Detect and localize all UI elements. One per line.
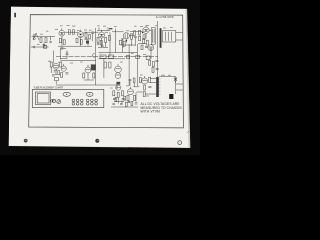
- resistor R33: [152, 67, 154, 72]
- black mat left band: [0, 0, 11, 155]
- B+ label: [109, 28, 112, 29]
- capacitor C19: [128, 101, 131, 102]
- wire: [99, 53, 138, 59]
- capacitor C20: [52, 75, 55, 76]
- black mat bottom band: [0, 146, 200, 155]
- capacitor C1: [43, 45, 46, 46]
- capacitor C16: [121, 39, 124, 40]
- resistor R44: [119, 40, 121, 45]
- capacitor C6: [134, 36, 137, 37]
- wire: [156, 21, 158, 77]
- resistor R26: [104, 62, 106, 68]
- capacitor C14: [113, 99, 125, 100]
- resistor R3: [59, 38, 61, 43]
- wire: [61, 50, 68, 58]
- capacitor C11: [116, 82, 120, 85]
- resistor R6: [72, 30, 74, 34]
- tube V2: [78, 30, 84, 38]
- coil L2: [49, 36, 51, 42]
- wire: [122, 39, 124, 53]
- wire: [129, 44, 151, 86]
- resistor R41: [144, 85, 146, 90]
- punch hole left: [24, 139, 28, 143]
- resistor R10: [89, 35, 91, 39]
- resistor R23: [61, 73, 63, 78]
- socket B2: [57, 100, 61, 104]
- resistor R40: [149, 77, 151, 82]
- capacitor C7: [145, 46, 148, 47]
- black mat top band: [0, 0, 200, 9]
- resistor R1: [40, 38, 42, 43]
- resistor R9: [85, 33, 87, 37]
- wire: [51, 67, 56, 84]
- tube V9: [116, 85, 121, 90]
- resistor R45: [123, 42, 125, 47]
- voltage note text: [141, 102, 183, 114]
- capacitor C8: [54, 71, 57, 72]
- resistor R18: [143, 39, 145, 44]
- wire: [138, 30, 151, 43]
- tube V6: [61, 64, 66, 71]
- ground bus wire: [111, 106, 138, 108]
- resistor R27: [109, 62, 111, 68]
- resistor R15: [134, 31, 136, 35]
- tube V5: [53, 63, 59, 69]
- capacitor C22: [112, 103, 115, 104]
- signal chain wire: [65, 30, 143, 33]
- tube placement chart box: [32, 89, 104, 107]
- electrolytic C3: [86, 41, 89, 44]
- capacitor C9: [65, 73, 68, 74]
- resistor R21: [50, 62, 52, 67]
- wire: [52, 51, 54, 64]
- vertical wire: [110, 29, 116, 56]
- oscillator box: [55, 77, 59, 80]
- scanned page background: [9, 0, 191, 149]
- tube V7: [85, 65, 91, 73]
- wire: [32, 35, 56, 37]
- wire: [159, 76, 176, 78]
- resistor R30: [146, 56, 150, 60]
- page number mark top-left: [14, 13, 16, 18]
- resistor R38: [133, 95, 135, 100]
- capacitor C21: [66, 53, 69, 54]
- output transformer T4: [156, 77, 160, 97]
- wire: [176, 84, 183, 90]
- scattered value labels: [37, 25, 173, 96]
- svg-text:A-1736 RVF: A-1736 RVF: [156, 15, 174, 19]
- tube V10: [127, 87, 133, 95]
- tube V3: [99, 30, 105, 38]
- wire: [84, 73, 94, 80]
- svg-text:TUBE PLACEMENT CHART: TUBE PLACEMENT CHART: [33, 86, 63, 90]
- resistor R16: [139, 30, 141, 35]
- long vertical wire: [95, 28, 97, 85]
- resistor R42: [143, 92, 145, 97]
- wire: [130, 81, 134, 86]
- resistor R48: [58, 71, 60, 75]
- socket group 2: [86, 99, 97, 105]
- capacitor C12: [155, 60, 158, 61]
- capacitor C18: [97, 44, 100, 45]
- resistor R31: [149, 60, 151, 65]
- tube V13: [148, 45, 154, 51]
- resistor R22: [60, 62, 62, 67]
- antenna input: [33, 33, 39, 40]
- wire: [81, 38, 88, 47]
- wire: [61, 60, 97, 62]
- grid cap dot V1: [61, 33, 62, 34]
- punch hole middle: [95, 139, 99, 143]
- socket group 1: [72, 99, 83, 105]
- punch hole right: [178, 141, 182, 145]
- resistor R29: [136, 55, 140, 58]
- resistor R2: [45, 38, 47, 43]
- discriminator transformer T3: [163, 31, 176, 42]
- resistor R25: [93, 73, 95, 78]
- resistor R35: [117, 92, 119, 97]
- resistor R32: [152, 62, 154, 67]
- wire: [114, 97, 124, 103]
- resistor R53: [133, 78, 135, 82]
- capacitor C5: [60, 48, 63, 49]
- tube V4: [143, 25, 149, 33]
- heater bus wire: [56, 56, 158, 58]
- resistor R47: [124, 96, 126, 100]
- IF amplifier tube V12: [123, 33, 129, 43]
- resistor R17: [143, 35, 145, 40]
- black mat right band: [187, 0, 200, 155]
- resistor R28: [126, 55, 129, 58]
- grid cap dot V3: [101, 34, 102, 35]
- CRT outline: [36, 92, 53, 105]
- resistor R39: [139, 78, 141, 83]
- sound take-off coil L1: [160, 28, 162, 48]
- capacitor C13: [156, 69, 159, 70]
- wire: [176, 32, 183, 40]
- svg-text:WITH VTVM: WITH VTVM: [141, 110, 161, 114]
- page edge shadow right: [186, 0, 191, 149]
- resistor R7: [76, 38, 78, 43]
- wire: [103, 58, 105, 78]
- wire: [122, 92, 136, 103]
- resistor R46: [115, 98, 117, 102]
- resistor R49: [139, 36, 141, 41]
- phono jack J1: [174, 78, 177, 83]
- capacitor C4: [91, 32, 94, 41]
- capacitor C25: [129, 79, 132, 80]
- resistor R14: [131, 34, 133, 39]
- resistor R37: [127, 95, 129, 100]
- resistor R4: [63, 40, 65, 45]
- capacitor C24: [135, 103, 138, 104]
- capacitor C17: [101, 45, 104, 46]
- wire: [61, 36, 63, 46]
- junction mark: [93, 53, 95, 57]
- audio bus wire: [56, 85, 117, 89]
- wire: [97, 27, 110, 47]
- socket E2: [86, 92, 93, 96]
- capacitor C23: [120, 104, 123, 105]
- resistor R8: [80, 40, 82, 45]
- AGC wire with arrows: [31, 45, 49, 48]
- grid cap dot V4: [142, 32, 143, 33]
- tube V11: [142, 76, 148, 84]
- resistor R20: [141, 45, 143, 50]
- capacitor C15: [148, 86, 151, 87]
- wire: [121, 36, 135, 48]
- schematic border frame: [29, 15, 184, 128]
- wire: [60, 49, 66, 60]
- stray mark bottom right: [187, 131, 189, 133]
- resistor R13: [108, 35, 110, 40]
- resistor R5: [68, 30, 70, 34]
- junction dot: [55, 74, 56, 75]
- socket B1: [52, 99, 55, 102]
- wire: [174, 77, 176, 94]
- speaker SP1 magnet: [169, 94, 173, 99]
- wire: [43, 43, 45, 48]
- electrolytic C10: [91, 64, 96, 70]
- IF can T2: [151, 28, 155, 44]
- resistor R24: [83, 73, 85, 78]
- resistor R12: [105, 37, 107, 42]
- resistor R52: [131, 101, 133, 105]
- resistor R51: [125, 102, 127, 106]
- resistor R36: [122, 91, 124, 96]
- tube V8 double triode: [115, 64, 122, 78]
- volume control VR1: [100, 55, 114, 58]
- capacitor C2: [85, 38, 88, 39]
- wire: [145, 79, 156, 94]
- resistor R11: [97, 37, 99, 42]
- resistor R34: [113, 91, 115, 96]
- wire: [133, 87, 142, 92]
- wire: [58, 45, 92, 47]
- resistor R43: [100, 40, 102, 45]
- grid cap dot V2: [80, 34, 81, 35]
- page edge shadow bottom: [9, 146, 190, 149]
- resistor R19: [146, 40, 148, 45]
- socket E1: [63, 92, 70, 96]
- tube V1: [59, 28, 65, 36]
